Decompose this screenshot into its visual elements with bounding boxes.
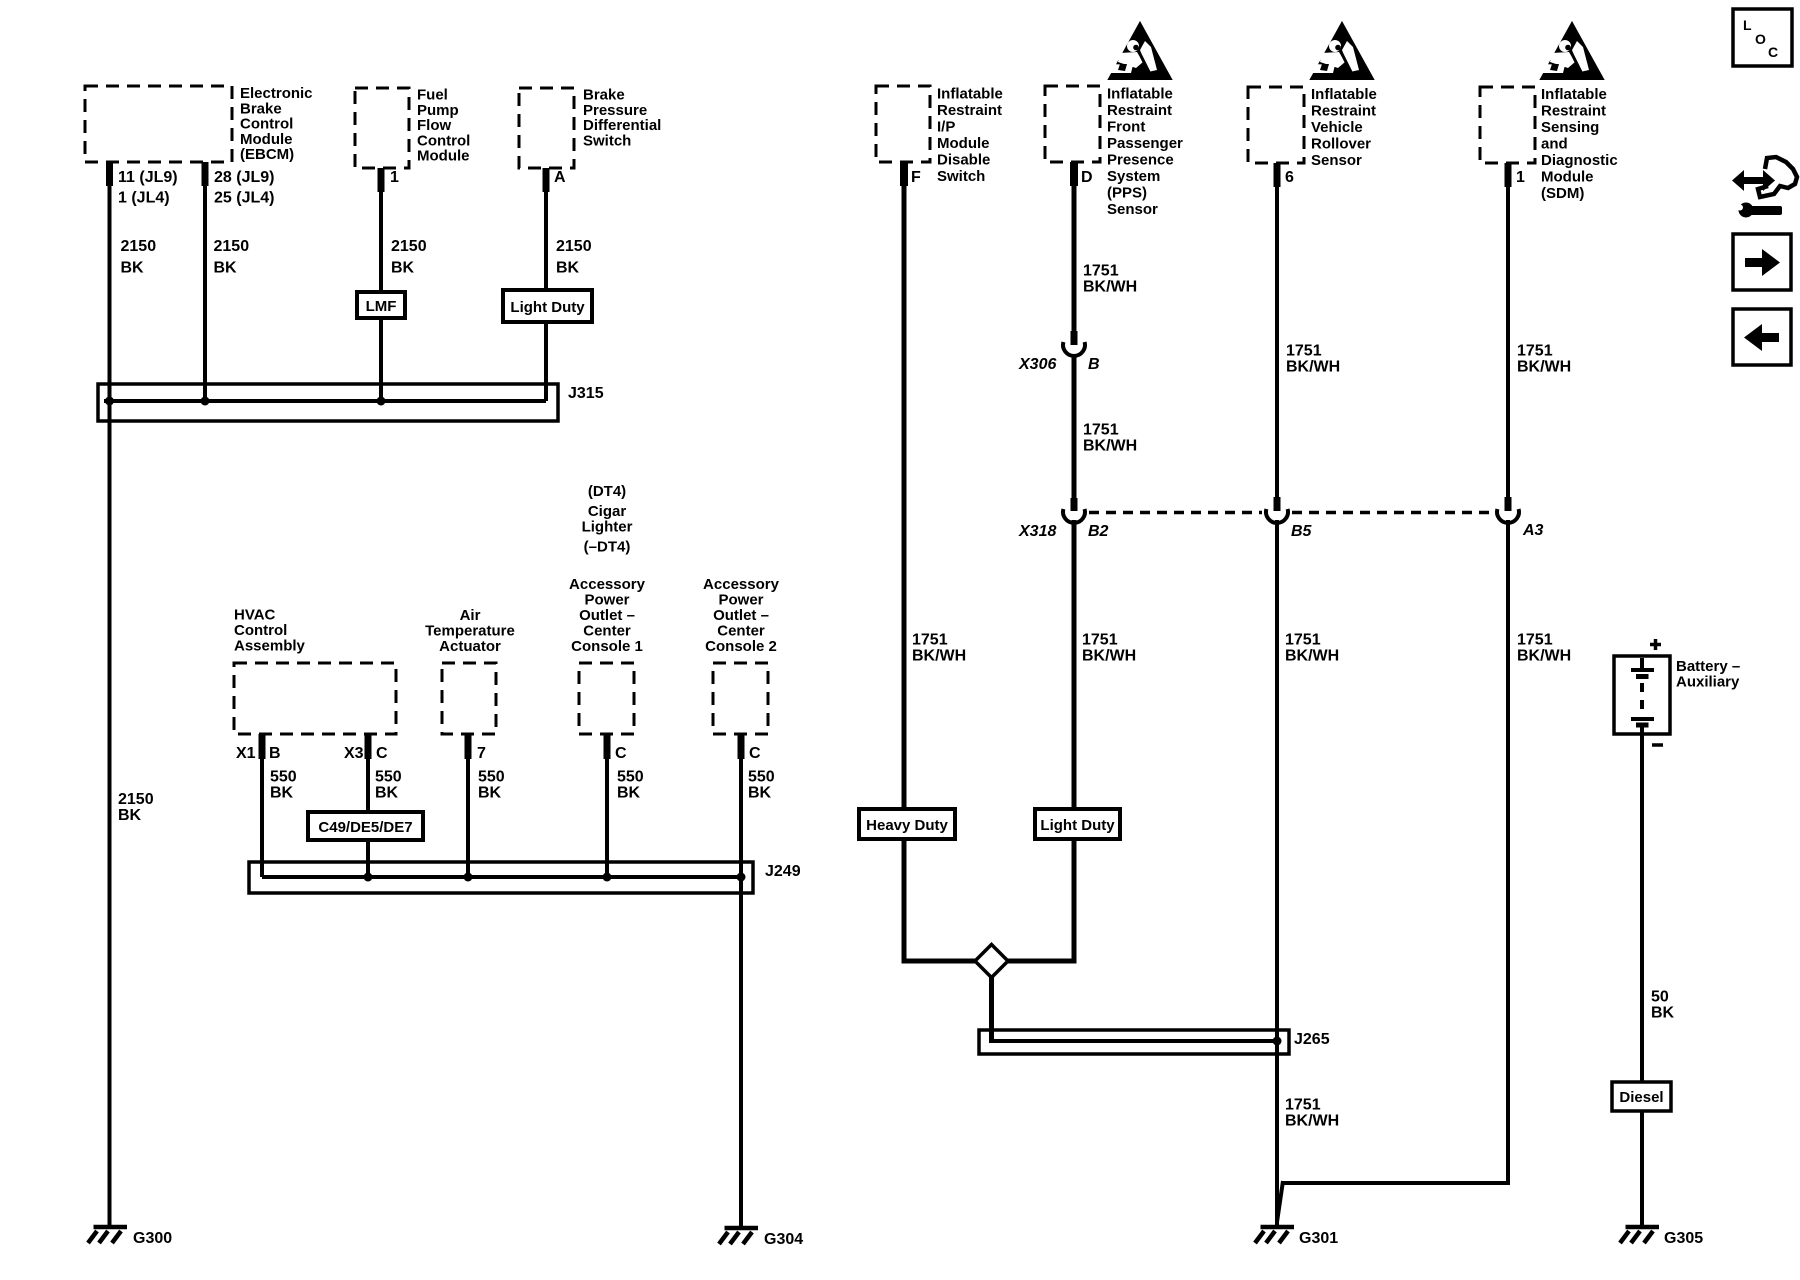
option box LMF <box>357 292 405 318</box>
junction dot at J249 ATA wire <box>464 873 473 882</box>
svg-text:1751: 1751 <box>1517 343 1553 360</box>
wire 550 BK from APO Console 1 to splice J249 <box>607 734 644 877</box>
svg-text:L: L <box>1743 17 1752 33</box>
wire 2150 BK from EBCM pin 28 to splice J315 <box>205 162 249 401</box>
module HVAC Control Assembly <box>234 607 396 734</box>
module Inflatable Restraint I/P Module Disable Switch <box>876 86 1003 186</box>
svg-text:BK: BK <box>391 260 415 277</box>
ground G301 <box>1255 1227 1338 1247</box>
wire from Diesel box to ground G305 <box>1640 1111 1644 1227</box>
module Air Temperature Actuator <box>425 607 515 734</box>
label (DT4) Cigar Lighter (-DT4) <box>582 483 633 556</box>
svg-text:G304: G304 <box>764 1231 803 1248</box>
svg-text:B: B <box>1088 356 1100 373</box>
pin F of Disable Switch <box>900 162 921 186</box>
svg-text:Accessory: Accessory <box>703 576 780 593</box>
option box C49/DE5/DE7 <box>308 812 423 840</box>
nav arrow box left <box>1733 309 1791 365</box>
svg-text:1: 1 <box>390 169 399 186</box>
connector X318 dashed harness line <box>1018 513 1491 541</box>
module EBCM (Electronic Brake Control Module) <box>85 85 313 163</box>
junction dot at J265 on wire to G301 <box>1273 1037 1282 1046</box>
svg-text:550: 550 <box>478 769 505 786</box>
svg-text:2150: 2150 <box>121 238 157 255</box>
svg-text:Inflatable: Inflatable <box>1541 86 1607 103</box>
svg-text:Accessory: Accessory <box>569 576 646 593</box>
svg-text:C: C <box>749 745 761 762</box>
svg-text:Power: Power <box>718 592 763 609</box>
svg-text:J249: J249 <box>765 863 801 880</box>
junction dot at J249 APO2 wire <box>737 873 746 882</box>
svg-text:A3: A3 <box>1522 522 1544 539</box>
svg-text:F: F <box>911 169 921 186</box>
svg-text:LMF: LMF <box>366 298 397 315</box>
svg-text:D: D <box>1081 169 1093 186</box>
splice pack J249 <box>249 862 801 893</box>
svg-text:2150: 2150 <box>556 238 592 255</box>
icon service tool with double arrow <box>1732 157 1797 218</box>
connector X318 cavity B2 <box>1063 498 1109 540</box>
svg-text:C: C <box>1768 44 1778 60</box>
svg-text:1751: 1751 <box>1083 263 1119 280</box>
wire from Heavy Duty box to splice diamond <box>902 839 977 961</box>
svg-text:Rollover: Rollover <box>1311 136 1371 153</box>
wire 2150 BK from EBCM pin 11 down to ground G300 <box>110 162 157 1227</box>
wire 550 BK from HVAC X3-C through C49/DE5/DE7 to splice J249 <box>368 734 402 877</box>
pin X3 C of HVAC Control Assembly <box>344 734 388 762</box>
svg-text:Outlet –: Outlet – <box>713 607 769 624</box>
svg-text:550: 550 <box>617 769 644 786</box>
option box Heavy Duty <box>859 809 955 839</box>
svg-text:Console 2: Console 2 <box>705 638 777 655</box>
connector X318 cavity B5 <box>1266 497 1313 540</box>
module Accessory Power Outlet - Center Console 1 <box>569 576 646 734</box>
svg-text:Module: Module <box>937 135 990 152</box>
module Fuel Pump Flow Control Module <box>355 87 470 169</box>
warning triangle above PPS sensor <box>1109 23 1171 79</box>
svg-text:BK: BK <box>556 260 580 277</box>
svg-text:BK: BK <box>270 785 294 802</box>
wire from Light Duty box to splice J315 <box>544 322 548 401</box>
svg-text:Lighter: Lighter <box>582 519 633 536</box>
svg-text:BK/WH: BK/WH <box>1083 279 1137 296</box>
pin D of PPS sensor <box>1070 162 1093 186</box>
svg-text:Restraint: Restraint <box>1107 102 1172 119</box>
svg-text:G305: G305 <box>1664 1230 1703 1247</box>
svg-text:X318: X318 <box>1018 523 1056 540</box>
wire 1751 BK/WH from Disable Switch to Heavy Duty box <box>904 162 966 809</box>
svg-text:(SDM): (SDM) <box>1541 185 1584 202</box>
svg-text:O: O <box>1755 31 1766 47</box>
svg-text:Presence: Presence <box>1107 152 1174 169</box>
svg-text:Light Duty: Light Duty <box>1040 817 1115 834</box>
wire 1751 BK/WH from X318-A3 down and left to ground G301 <box>1277 520 1571 1222</box>
svg-text:BK/WH: BK/WH <box>1285 1113 1339 1130</box>
svg-text:1 (JL4): 1 (JL4) <box>118 190 170 207</box>
pin 7 of Air Temperature Actuator <box>465 734 487 762</box>
svg-text:BK: BK <box>617 785 641 802</box>
option box Light Duty (middle) <box>1035 809 1120 839</box>
svg-text:Restraint: Restraint <box>1311 103 1376 120</box>
svg-text:X306: X306 <box>1018 356 1056 373</box>
svg-text:Cigar: Cigar <box>588 503 627 520</box>
svg-text:BK: BK <box>748 785 772 802</box>
svg-text:Module: Module <box>417 148 470 165</box>
svg-text:BK: BK <box>1651 1005 1675 1022</box>
pin 28 (JL9) / 25 (JL4) of EBCM <box>202 162 275 207</box>
connector X318 cavity A3 <box>1497 497 1544 539</box>
option box Diesel <box>1612 1082 1671 1111</box>
pin 6 of Rollover sensor <box>1274 163 1295 187</box>
option box Light Duty (top) <box>503 290 592 322</box>
svg-text:Inflatable: Inflatable <box>937 86 1003 103</box>
svg-text:BK: BK <box>375 785 399 802</box>
pin 1 of SDM <box>1505 163 1526 187</box>
wire 1751 BK/WH from Rollover sensor to connector X318 <box>1277 163 1340 499</box>
svg-text:11 (JL9): 11 (JL9) <box>118 169 178 186</box>
svg-text:1751: 1751 <box>912 632 948 649</box>
svg-text:B2: B2 <box>1088 523 1109 540</box>
svg-text:Heavy Duty: Heavy Duty <box>866 817 948 834</box>
svg-text:550: 550 <box>748 769 775 786</box>
svg-text:550: 550 <box>270 769 297 786</box>
svg-text:X1: X1 <box>236 745 256 762</box>
svg-text:Inflatable: Inflatable <box>1311 86 1377 103</box>
svg-text:50: 50 <box>1651 989 1669 1006</box>
svg-text:J265: J265 <box>1294 1031 1330 1048</box>
ground G300 <box>88 1227 172 1247</box>
wire 1751 BK/WH from SDM to connector X318 <box>1508 163 1571 499</box>
svg-text:Actuator: Actuator <box>439 638 501 655</box>
svg-text:BK: BK <box>118 807 142 824</box>
svg-text:BK/WH: BK/WH <box>1517 359 1571 376</box>
svg-text:25 (JL4): 25 (JL4) <box>214 190 274 207</box>
svg-text:1751: 1751 <box>1082 632 1118 649</box>
svg-text:Front: Front <box>1107 119 1145 136</box>
splice pack J315 <box>98 384 604 421</box>
module Brake Pressure Differential Switch <box>519 87 661 169</box>
svg-text:B: B <box>269 745 281 762</box>
svg-text:C: C <box>615 745 627 762</box>
junction dot at J315 wire 1 <box>105 397 114 406</box>
svg-text:BK/WH: BK/WH <box>1083 438 1137 455</box>
svg-text:Inflatable: Inflatable <box>1107 86 1173 103</box>
svg-text:Switch: Switch <box>583 132 631 149</box>
svg-text:BK: BK <box>478 785 502 802</box>
svg-text:G301: G301 <box>1299 1230 1338 1247</box>
svg-text:2150: 2150 <box>214 238 250 255</box>
svg-text:(PPS): (PPS) <box>1107 185 1147 202</box>
svg-text:X3: X3 <box>344 745 364 762</box>
svg-text:Passenger: Passenger <box>1107 135 1183 152</box>
pin 11 (JL9) / 1 (JL4) of EBCM <box>106 162 178 207</box>
svg-text:7: 7 <box>477 745 486 762</box>
wire 550 BK from Air Temperature Actuator to splice J249 <box>468 734 505 877</box>
svg-text:Diagnostic: Diagnostic <box>1541 152 1618 169</box>
pin C of Accessory Power Outlet Center Console 2 <box>738 734 762 762</box>
svg-text:Sensor: Sensor <box>1107 201 1158 218</box>
svg-text:Power: Power <box>584 592 629 609</box>
svg-text:Assembly: Assembly <box>234 637 306 654</box>
svg-text:Vehicle: Vehicle <box>1311 119 1363 136</box>
wire 1751 BK/WH from PPS sensor to connector X306 <box>1074 162 1137 345</box>
pin A of Brake Pressure Differential Switch <box>543 168 567 192</box>
ground G304 <box>719 1228 803 1248</box>
svg-text:28 (JL9): 28 (JL9) <box>214 169 274 186</box>
pin 1 of Fuel Pump Flow Control Module <box>378 168 400 192</box>
svg-text:Console 1: Console 1 <box>571 638 643 655</box>
svg-text:BK/WH: BK/WH <box>1082 648 1136 665</box>
legend box L-O-C <box>1733 9 1792 66</box>
svg-text:Auxiliary: Auxiliary <box>1676 674 1740 691</box>
svg-text:(–DT4): (–DT4) <box>584 539 631 556</box>
wire 550 BK from APO Console 2 through J249 down to ground G304 <box>741 734 775 1228</box>
svg-text:I/P: I/P <box>937 119 955 136</box>
svg-text:Disable: Disable <box>937 152 990 169</box>
ground G305 <box>1620 1227 1703 1247</box>
svg-text:2150: 2150 <box>118 791 154 808</box>
svg-text:1751: 1751 <box>1285 1097 1321 1114</box>
wire 1751 BK/WH from X318-B5 through J265 to ground G301 <box>1277 520 1339 1227</box>
svg-text:BK/WH: BK/WH <box>1286 359 1340 376</box>
wire 2150 BK from Brake Pressure switch to Light Duty option box <box>546 168 592 290</box>
svg-text:A: A <box>554 169 566 186</box>
splice pack J265 <box>979 1030 1330 1054</box>
wire from Light Duty box to splice diamond <box>1007 839 1077 961</box>
svg-text:1751: 1751 <box>1083 422 1119 439</box>
connector X306 pin B <box>1018 331 1100 373</box>
svg-text:(EBCM): (EBCM) <box>240 146 294 163</box>
module Inflatable Restraint Sensing and Diagnostic Module (SDM) <box>1480 86 1618 202</box>
svg-text:BK/WH: BK/WH <box>1285 648 1339 665</box>
wire 550 BK from HVAC X1-B to splice J249 <box>262 734 297 877</box>
junction dot at J315 wire 2 <box>201 397 210 406</box>
wire from splice diamond to splice pack J265 <box>989 978 994 1044</box>
wire 1751 BK/WH from X306 to connector X318 <box>1074 354 1137 499</box>
module Inflatable Restraint Vehicle Rollover Sensor <box>1248 86 1377 169</box>
svg-text:BK: BK <box>121 260 145 277</box>
pin X1 B of HVAC Control Assembly <box>236 734 281 762</box>
svg-text:BK: BK <box>214 260 238 277</box>
svg-text:6: 6 <box>1285 169 1294 186</box>
svg-text:Center: Center <box>717 623 765 640</box>
svg-text:1751: 1751 <box>1517 632 1553 649</box>
nav arrow box right <box>1733 234 1791 290</box>
svg-text:1751: 1751 <box>1286 343 1322 360</box>
svg-text:Module: Module <box>1541 169 1594 186</box>
svg-text:Diesel: Diesel <box>1619 1089 1663 1106</box>
svg-text:BK/WH: BK/WH <box>912 648 966 665</box>
svg-text:B5: B5 <box>1291 523 1313 540</box>
splice diamond <box>975 945 1008 978</box>
wire from LMF box to splice J315 <box>379 318 383 401</box>
module Accessory Power Outlet - Center Console 2 <box>703 576 780 734</box>
svg-text:J315: J315 <box>568 385 604 402</box>
svg-text:1751: 1751 <box>1285 632 1321 649</box>
wire 1751 BK/WH from X318-B2 to Light Duty box <box>1074 520 1136 809</box>
junction dot at J249 wire X3-C <box>364 873 373 882</box>
battery Battery-Auxiliary <box>1614 639 1740 745</box>
svg-text:BK/WH: BK/WH <box>1517 648 1571 665</box>
svg-text:and: and <box>1541 136 1568 153</box>
svg-text:Restraint: Restraint <box>937 102 1002 119</box>
svg-text:Center: Center <box>583 623 631 640</box>
svg-text:2150: 2150 <box>391 238 427 255</box>
svg-text:Light Duty: Light Duty <box>510 299 585 316</box>
pin C of Accessory Power Outlet Center Console 1 <box>604 734 628 762</box>
warning triangle above SDM <box>1541 23 1603 79</box>
warning triangle above Rollover sensor <box>1311 23 1373 79</box>
wire 50 BK from battery to Diesel box <box>1642 734 1675 1082</box>
svg-text:Outlet –: Outlet – <box>579 607 635 624</box>
svg-text:1: 1 <box>1516 169 1525 186</box>
svg-text:C49/DE5/DE7: C49/DE5/DE7 <box>318 819 412 836</box>
wire 2150 BK from Fuel Pump module to LMF option box <box>381 168 427 292</box>
module Inflatable Restraint Front Passenger Presence System (PPS) Sensor <box>1045 86 1183 219</box>
svg-text:C: C <box>376 745 388 762</box>
svg-text:(DT4): (DT4) <box>588 483 626 500</box>
svg-text:550: 550 <box>375 769 402 786</box>
junction dot at J249 APO1 wire <box>603 873 612 882</box>
svg-text:Switch: Switch <box>937 168 985 185</box>
svg-text:G300: G300 <box>133 1230 172 1247</box>
svg-text:Restraint: Restraint <box>1541 103 1606 120</box>
svg-text:Sensing: Sensing <box>1541 119 1599 136</box>
svg-text:Battery –: Battery – <box>1676 658 1740 675</box>
junction dot at J315 LMF wire <box>377 397 386 406</box>
svg-text:Sensor: Sensor <box>1311 152 1362 169</box>
svg-text:System: System <box>1107 168 1160 185</box>
